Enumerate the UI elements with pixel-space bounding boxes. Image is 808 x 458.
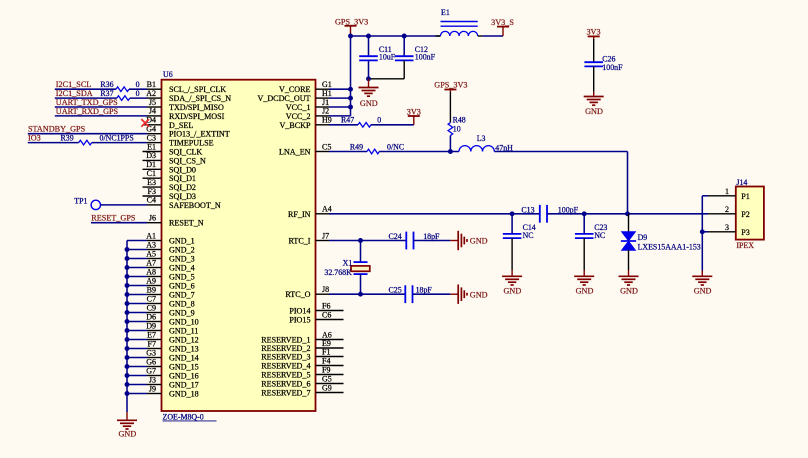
junction [125, 355, 130, 360]
svg-text:RXD/SPI_MOSI: RXD/SPI_MOSI [169, 112, 225, 121]
svg-text:G5: G5 [322, 374, 332, 383]
wire GND bus to pin A8 [127, 276, 147, 278]
svg-text:J5: J5 [149, 98, 156, 107]
ground GND (C25, sideways) [450, 293, 458, 295]
svg-text:RESET_GPS: RESET_GPS [91, 214, 136, 223]
power port 3V3_S [497, 26, 509, 28]
resistor R47 [358, 123, 371, 128]
capacitor C13 (series) [539, 205, 541, 223]
pin A8 (GND_5) [147, 276, 162, 278]
svg-text:GND_14: GND_14 [169, 354, 199, 363]
pin E7 (GND_12) [147, 339, 162, 341]
svg-text:10uF: 10uF [379, 53, 396, 62]
ground GND (under C14) [511, 270, 513, 276]
svg-text:J14: J14 [736, 178, 747, 187]
svg-text:C9: C9 [147, 303, 156, 312]
ground GND (under D9) [628, 270, 630, 276]
svg-text:100nF: 100nF [415, 53, 436, 62]
pin F6 (PIO14) [316, 310, 344, 312]
power port GPS_3V3 (LNA feed) [444, 89, 456, 91]
svg-text:C3: C3 [147, 133, 156, 142]
svg-text:C1: C1 [147, 169, 156, 178]
pin C3 (TIMEPULSE) [147, 142, 162, 144]
junction J1 [348, 105, 353, 110]
svg-text:J4: J4 [149, 107, 156, 116]
svg-text:PIO15: PIO15 [289, 316, 310, 325]
svg-text:18pF: 18pF [423, 232, 440, 241]
svg-text:32.768K: 32.768K [324, 268, 352, 277]
svg-text:E3: E3 [147, 178, 156, 187]
svg-text:D9: D9 [146, 321, 156, 330]
resistor R37 [117, 96, 130, 101]
svg-text:A3: A3 [146, 240, 156, 249]
svg-text:G6: G6 [146, 357, 156, 366]
svg-text:SDA_/_SPI_CS_N: SDA_/_SPI_CS_N [169, 94, 231, 103]
svg-text:GND_3: GND_3 [169, 255, 195, 264]
wire VCC_1 J1 to rail [329, 106, 351, 108]
wire GND bus to pin B9 [127, 294, 147, 296]
resistor R49 [367, 149, 379, 154]
svg-text:P3: P3 [741, 228, 750, 237]
pin E1 (SQI_CLK) [143, 151, 162, 153]
svg-text:0: 0 [136, 80, 140, 89]
pin J7 (RTC_I) [316, 240, 330, 242]
svg-text:R48: R48 [453, 116, 466, 125]
svg-text:B1: B1 [147, 80, 156, 89]
wire GND bus to pin A7 [127, 267, 147, 269]
junction [125, 382, 130, 387]
wire RTC_O J8 to C25 [329, 293, 405, 295]
wire R36 to pin B1 [129, 88, 147, 90]
pin F1 (RESERVED_3) [316, 356, 344, 358]
junction RTC_O at X1 [358, 292, 363, 297]
svg-text:GND_17: GND_17 [169, 381, 199, 390]
svg-text:A4: A4 [322, 205, 332, 214]
svg-text:100pF: 100pF [558, 205, 579, 214]
junction [125, 328, 130, 333]
junction LNA node at R48 [448, 149, 453, 154]
pin C7 (GND_8) [147, 303, 162, 305]
svg-text:ZOE-M8Q-0: ZOE-M8Q-0 [163, 412, 204, 421]
svg-text:0/NC: 0/NC [387, 142, 404, 151]
wire LNA_EN C5 to R49 [329, 151, 367, 153]
inductor L3 [459, 146, 494, 152]
svg-text:J1: J1 [322, 98, 329, 107]
ground GND (under C23) [583, 270, 585, 276]
svg-text:U6: U6 [163, 70, 173, 79]
pin G4 (PIO13_/_EXTINT) [147, 133, 162, 135]
ground GND (under C26) [593, 92, 595, 97]
wire STANDBY_GPS to pin G4 [28, 133, 147, 135]
svg-text:G1: G1 [322, 80, 332, 89]
svg-text:IO3: IO3 [28, 134, 41, 143]
svg-text:2: 2 [725, 205, 729, 214]
svg-text:E1: E1 [441, 8, 450, 17]
pin B9 (GND_7) [147, 294, 162, 296]
svg-text:F4: F4 [322, 356, 330, 365]
pin C4 (SAFEBOOT_N) [147, 204, 162, 206]
wire GND bus to pin D6 [127, 321, 147, 323]
power port GPS_3V3 (main rail) [345, 25, 357, 27]
svg-text:E1: E1 [147, 142, 156, 151]
wire GND bus to pin J9 [127, 393, 147, 395]
wire GND bus to pin A5 [127, 258, 147, 260]
svg-text:GND_9: GND_9 [169, 309, 195, 318]
svg-text:3: 3 [725, 223, 729, 232]
junction C11 bottom [366, 76, 371, 81]
junction [125, 301, 130, 306]
svg-text:3V3: 3V3 [586, 27, 600, 36]
svg-text:GND_7: GND_7 [169, 291, 195, 300]
pin 2 (P2) [708, 213, 736, 215]
svg-text:GND: GND [470, 237, 488, 246]
wire L3 to antenna node [494, 151, 627, 153]
svg-text:PIO14: PIO14 [289, 307, 310, 316]
svg-text:G3: G3 [146, 348, 156, 357]
wire TP1 to pin C4 [101, 204, 148, 206]
pin D9 (GND_11) [147, 330, 162, 332]
svg-text:RESERVED_3: RESERVED_3 [261, 353, 310, 362]
pin F9 (RESERVED_5) [316, 374, 344, 376]
pin J8 (RTC_O) [316, 293, 330, 295]
wire C13 to J14 pin 2 [547, 213, 708, 215]
capacitor C14 [511, 214, 513, 234]
svg-text:R36: R36 [100, 80, 113, 89]
pin 1 (P1) [708, 195, 736, 197]
junction [125, 319, 130, 324]
wire GND bus to pin J3 [127, 384, 147, 386]
resistor R48 [448, 123, 453, 136]
svg-text:GND: GND [620, 286, 638, 295]
pin J4 (RXD/SPI_MOSI) [147, 115, 162, 117]
pin 3 (P3) [708, 231, 736, 233]
pin A1 (GND_1) [147, 240, 162, 242]
pin J3 (GND_17) [147, 384, 162, 386]
pin G9 (RESERVED_7) [316, 392, 344, 394]
svg-text:TXD/SPI_MISO: TXD/SPI_MISO [169, 103, 224, 112]
junction RF at C14 [510, 211, 515, 216]
wire UART_RXD_GPS to pin J4 [55, 115, 147, 117]
svg-text:C24: C24 [389, 232, 402, 241]
junction [125, 274, 130, 279]
svg-text:F1: F1 [322, 347, 330, 356]
svg-text:SCL_/_SPI_CLK: SCL_/_SPI_CLK [169, 85, 226, 94]
svg-text:C5: C5 [322, 142, 331, 151]
wire R48 to LNA node [449, 136, 451, 152]
power port 3V3 (C26) [588, 35, 600, 37]
wire rail down to chip power pins [350, 36, 352, 116]
wire GND bus to pin A1 [127, 240, 147, 242]
svg-text:18pF: 18pF [416, 286, 433, 295]
wire GND bus to pin C9 [127, 312, 147, 314]
svg-text:B9: B9 [147, 285, 156, 294]
wire J14 pin3 to ground link [702, 231, 708, 233]
svg-text:C4: C4 [147, 196, 156, 205]
svg-text:J6: J6 [149, 214, 156, 223]
svg-text:R37: R37 [100, 89, 113, 98]
wire E1 to 3V3_S [483, 35, 503, 37]
wire V_CORE G1 to rail [329, 88, 351, 90]
junction RTC_I at X1 [358, 238, 363, 243]
svg-text:R49: R49 [350, 142, 363, 151]
svg-text:GND_12: GND_12 [169, 336, 199, 345]
svg-text:SQI_CS_N: SQI_CS_N [169, 156, 206, 165]
svg-text:A8: A8 [146, 267, 156, 276]
pin D6 (GND_10) [147, 321, 162, 323]
wire GND bus to pin E7 [127, 339, 147, 341]
svg-text:J7: J7 [322, 231, 329, 240]
svg-text:J3: J3 [149, 375, 156, 384]
svg-text:IPEX: IPEX [736, 241, 754, 250]
wire GND bus to pin A9 [127, 285, 147, 287]
svg-text:NC: NC [594, 231, 605, 240]
svg-text:GND_18: GND_18 [169, 390, 199, 399]
svg-text:F6: F6 [322, 301, 330, 310]
capacitor C11 [368, 36, 370, 56]
svg-text:SQI_D1: SQI_D1 [169, 174, 196, 183]
svg-text:L3: L3 [477, 134, 486, 143]
svg-text:G9: G9 [322, 383, 332, 392]
svg-text:LXES15AAA1-153: LXES15AAA1-153 [638, 242, 701, 251]
pin J5 (TXD/SPI_MISO) [147, 106, 162, 108]
wire IO3 to R39 [28, 142, 79, 144]
wire R49 to L3 [379, 151, 459, 153]
svg-text:RESERVED_7: RESERVED_7 [261, 389, 310, 398]
svg-text:P1: P1 [741, 192, 750, 201]
svg-text:G7: G7 [146, 366, 156, 375]
svg-text:V_DCDC_OUT: V_DCDC_OUT [257, 94, 310, 103]
capacitor C24 (series) [405, 232, 407, 250]
svg-text:SAFEBOOT_N: SAFEBOOT_N [169, 201, 221, 210]
pin G5 (RESERVED_6) [316, 383, 344, 385]
svg-text:J9: J9 [149, 384, 156, 393]
svg-text:A5: A5 [146, 249, 156, 258]
ground GND (bus bottom) [126, 412, 128, 420]
wire RESET_GPS to pin J6 [91, 222, 147, 224]
svg-text:F3: F3 [148, 187, 156, 196]
wire V_BCKP H9 to R47 [329, 124, 358, 126]
svg-text:GND: GND [470, 290, 488, 299]
pin G7 (GND_16) [147, 375, 162, 377]
wire GND bus to pin F7 [127, 348, 147, 350]
wire GND bus to pin D9 [127, 330, 147, 332]
svg-text:P2: P2 [741, 210, 750, 219]
svg-text:D6: D6 [146, 312, 156, 321]
junction [125, 364, 130, 369]
svg-text:SQI_CLK: SQI_CLK [169, 148, 202, 157]
svg-text:E7: E7 [147, 330, 156, 339]
power port 3V3 (V_BCKP) [408, 115, 420, 117]
svg-text:GND_2: GND_2 [169, 246, 195, 255]
svg-text:H9: H9 [322, 116, 332, 125]
pin D3 (SQI_CS_N) [143, 159, 162, 161]
junction [125, 247, 130, 252]
svg-text:VCC_2: VCC_2 [286, 112, 311, 121]
junction [125, 391, 130, 396]
pin A5 (GND_3) [147, 258, 162, 260]
svg-text:X1: X1 [343, 259, 353, 268]
junction rail at power stem [348, 34, 353, 39]
wire R39 to pin C3 [92, 142, 147, 144]
svg-text:I2C1_SCL: I2C1_SCL [56, 80, 92, 89]
svg-text:GND_10: GND_10 [169, 318, 199, 327]
pin B1 (SCL_/_SPI_CLK) [147, 88, 162, 90]
svg-text:GND: GND [360, 99, 378, 108]
svg-text:TP1: TP1 [74, 196, 87, 205]
svg-text:J8: J8 [322, 285, 329, 294]
svg-text:RTC_I: RTC_I [289, 237, 311, 246]
resistor R39 [79, 140, 92, 145]
pin J1 (VCC_1) [316, 106, 330, 108]
wire GPS_3V3 rail horizontal [351, 35, 441, 37]
pin G3 (GND_14) [147, 357, 162, 359]
svg-text:100nF: 100nF [602, 63, 623, 72]
diode D9 TVS [628, 214, 630, 232]
svg-text:GND_8: GND_8 [169, 300, 195, 309]
svg-text:RTC_O: RTC_O [285, 290, 310, 299]
pin J9 (GND_18) [147, 393, 162, 395]
svg-text:GND_1: GND_1 [169, 237, 195, 246]
crystal X1 [360, 241, 362, 262]
pin D4 (D_SEL) [143, 124, 162, 126]
pin D1 (SQI_D0) [143, 168, 162, 170]
pin A6 (RESERVED_1) [316, 339, 344, 341]
wire GND bus to pin G7 [127, 375, 147, 377]
pin C1 (SQI_D1) [143, 177, 162, 179]
pin J2 (VCC_2) [316, 115, 330, 117]
pin G1 (V_CORE) [316, 88, 330, 90]
junction [125, 337, 130, 342]
wire RTC_I J7 to C24 [329, 240, 406, 242]
pin A3 (GND_2) [147, 249, 162, 251]
no-ERC marker on pin D4 [141, 119, 149, 127]
wire I2C1_SDA to R37 [55, 97, 117, 99]
capacitor C25 (series) [404, 285, 406, 303]
svg-text:R39: R39 [61, 134, 74, 143]
svg-text:V_CORE: V_CORE [279, 85, 311, 94]
svg-text:A2: A2 [146, 89, 156, 98]
svg-text:LNA_EN: LNA_EN [279, 148, 311, 157]
svg-text:GND_11: GND_11 [169, 327, 198, 336]
wire GPS_3V3 down to R48 [449, 92, 451, 123]
svg-text:F7: F7 [148, 339, 156, 348]
svg-text:F9: F9 [322, 365, 330, 374]
svg-text:GND_15: GND_15 [169, 363, 199, 372]
pin C5 (LNA_EN) [316, 151, 330, 153]
wire VCC_2 J2 to rail [329, 115, 351, 117]
svg-text:RF_IN: RF_IN [288, 210, 311, 219]
svg-text:SQI_D3: SQI_D3 [169, 192, 196, 201]
svg-text:GND: GND [585, 107, 603, 116]
svg-text:C25: C25 [389, 286, 402, 295]
junction rail at C12 [402, 34, 407, 39]
svg-text:GND: GND [576, 286, 594, 295]
pin H1 (V_DCDC_OUT) [316, 97, 330, 99]
svg-text:1: 1 [725, 187, 729, 196]
IC U6 ZOE-M8Q-0 GPS module body [162, 80, 316, 411]
svg-text:GND_5: GND_5 [169, 273, 195, 282]
pin F4 (RESERVED_4) [316, 365, 344, 367]
svg-text:GND_13: GND_13 [169, 345, 199, 354]
wire GND bus to pin G6 [127, 366, 147, 368]
wire GND bus to pin A3 [127, 249, 147, 251]
pin A2 (SDA_/_SPI_CS_N) [147, 97, 162, 99]
svg-text:J2: J2 [322, 107, 329, 116]
svg-text:D9: D9 [638, 233, 648, 242]
capacitor C23 [583, 214, 585, 234]
junction [125, 256, 130, 261]
svg-text:D1: D1 [146, 160, 156, 169]
junction pin3 on ground link [700, 229, 705, 234]
svg-text:GND: GND [694, 286, 712, 295]
svg-text:RESERVED_5: RESERVED_5 [261, 371, 310, 380]
wire UART_TXD_GPS to pin J5 [55, 106, 147, 108]
svg-text:UART_RXD_GPS: UART_RXD_GPS [56, 107, 119, 116]
svg-text:C13: C13 [521, 205, 534, 214]
wire I2C1_SCL to R36 [55, 88, 116, 90]
connector J14 body [736, 187, 764, 240]
svg-text:0/NC1PPS: 0/NC1PPS [100, 134, 134, 143]
svg-text:D3: D3 [146, 151, 156, 160]
svg-text:GND_16: GND_16 [169, 372, 199, 381]
pin G6 (GND_15) [147, 366, 162, 368]
svg-text:GPS_3V3: GPS_3V3 [335, 18, 368, 27]
pin J6 (RESET_N) [147, 222, 162, 224]
svg-text:GND: GND [119, 430, 137, 439]
junction H1 [348, 96, 353, 101]
capacitor C12 [403, 36, 405, 56]
svg-text:UART_TXD_GPS: UART_TXD_GPS [56, 98, 118, 107]
svg-text:PIO13_/_EXTINT: PIO13_/_EXTINT [169, 130, 230, 139]
svg-text:SQI_D0: SQI_D0 [169, 165, 196, 174]
svg-text:RESERVED_6: RESERVED_6 [261, 380, 310, 389]
svg-text:H1: H1 [322, 89, 332, 98]
svg-text:RESERVED_4: RESERVED_4 [261, 362, 310, 371]
wire C12 bottom to C11 bottom [369, 78, 405, 80]
svg-text:A9: A9 [146, 276, 156, 285]
pin E9 (RESERVED_2) [316, 347, 344, 349]
svg-text:GPS_3V3: GPS_3V3 [434, 80, 467, 89]
wire RF_IN A4 to C13 [329, 213, 540, 215]
pin A9 (GND_6) [147, 285, 162, 287]
wire C25 to GND [413, 293, 451, 295]
junction [125, 292, 130, 297]
pin F3 (SQI_D3) [143, 195, 162, 197]
junction RF at D9 / LNA drop [625, 211, 630, 216]
pin F7 (GND_13) [147, 348, 162, 350]
ground GND (under C11) [368, 79, 370, 88]
svg-text:TIMEPULSE: TIMEPULSE [169, 139, 214, 148]
wire GND bus to pin C7 [127, 303, 147, 305]
capacitor C26 [593, 39, 595, 62]
wire GND bus to pin G3 [127, 357, 147, 359]
svg-text:GND: GND [504, 286, 522, 295]
test point TP1 [91, 200, 100, 209]
junction [125, 346, 130, 351]
svg-text:D_SEL: D_SEL [169, 121, 193, 130]
pin H9 (V_BCKP) [316, 124, 330, 126]
svg-text:0: 0 [377, 116, 381, 125]
resistor R36 [116, 87, 129, 92]
svg-text:GND_4: GND_4 [169, 264, 195, 273]
junction [125, 310, 130, 315]
pin A4 (RF_IN) [316, 213, 330, 215]
svg-text:A1: A1 [146, 231, 156, 240]
svg-text:C6: C6 [322, 310, 331, 319]
pin C9 (GND_9) [147, 312, 162, 314]
svg-text:A7: A7 [146, 258, 156, 267]
junction [125, 265, 130, 270]
